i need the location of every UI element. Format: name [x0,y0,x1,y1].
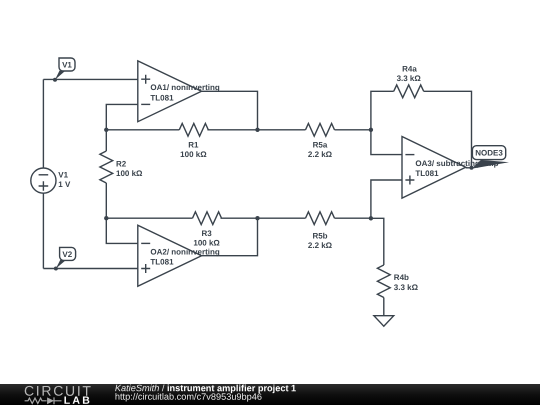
label V1 1 V [58,170,71,189]
wire: V1 flag node to OA1 noninverting input [43,78,137,80]
footer bar [0,384,540,405]
wire: OA1 output down to junction B [202,91,258,130]
resistor R3 [193,212,222,225]
svg-text:3.3 kΩ: 3.3 kΩ [397,74,422,83]
voltage source V1 [31,168,56,193]
wire: node C to R3 left lead [106,217,192,219]
svg-text:V1: V1 [58,170,68,179]
wire: V1 source bottom to V2 node and corner [42,193,44,268]
svg-text:R2: R2 [116,160,127,169]
label R4b 3.3 kΩ [394,273,419,292]
resistor R1 [179,123,208,136]
label R1 100 kΩ [180,141,207,160]
wire: left column top (node to V1 source) [42,79,44,168]
svg-text:R4a: R4a [402,64,417,73]
svg-text:2.2 kΩ: 2.2 kΩ [308,150,333,159]
svg-text:100 kΩ: 100 kΩ [180,150,207,159]
net flag V2 [54,247,76,270]
ground [374,316,394,327]
net flag V1 [53,58,75,82]
svg-text:2.2 kΩ: 2.2 kΩ [308,241,333,250]
svg-text:R1: R1 [188,141,199,150]
resistor R2 [100,130,113,218]
wire: junction E down to OA3 inverting input [371,130,402,155]
logo schematic glyph (resistor + diode) [25,397,62,404]
svg-text:R3: R3 [201,229,212,238]
resistor R5b [306,212,335,225]
label R5a 2.2 kΩ [308,141,333,160]
label OA1/ noninverting TL081 [150,83,219,102]
op-amp OA2 [138,225,202,286]
wire: junction E up to R4a left lead [371,91,394,130]
wire: node C down to OA2 inverting input [106,218,138,243]
wire: OA1 inverting input feedback to node A [106,104,138,129]
footer credit text [115,383,296,402]
wire: junction B to R5a left lead [258,129,306,131]
svg-text:V2: V2 [62,250,72,259]
label OA2/ noninverting TL081 [150,247,219,266]
wire: R4b bottom lead to ground [383,298,385,316]
label R5b 2.2 kΩ [308,231,333,250]
label R3 100 kΩ [193,229,220,248]
junction node E (R5a/R4a/OA3 inverting) [369,128,373,132]
svg-text:100 kΩ: 100 kΩ [193,239,220,248]
wire: R3 right lead to junction D [221,217,258,219]
svg-text:R4b: R4b [394,273,409,282]
wire: node A to R1 left lead [106,129,179,131]
wire: R5a right lead to junction E [335,129,371,131]
label R2 100 kΩ [116,160,143,179]
wire: R1 right lead to junction B [207,129,257,131]
svg-text:LAB: LAB [64,395,92,405]
logo CIRCUIT LAB [24,383,93,405]
resistor R4a [394,85,424,98]
wire: OA2 output up to junction D [202,218,258,256]
junction NODE3 point [470,166,474,170]
junction node A (R1/R2/OA1 feedback) [104,128,108,132]
svg-text:3.3 kΩ: 3.3 kΩ [394,283,419,292]
net flag NODE3 [472,146,510,169]
label R4a 3.3 kΩ [397,64,422,83]
svg-text:TL081: TL081 [415,169,439,178]
label OA3/ subtracting amp TL081 [415,159,498,178]
svg-text:R5a: R5a [313,141,328,150]
svg-text:TL081: TL081 [150,258,174,267]
wire: R4a right lead down to NODE3 [424,91,472,168]
wire: V2 node to OA2 noninverting input [43,268,137,270]
junction node C (R2 bottom/R3/OA2 feedback) [104,216,108,220]
wire: R5b right lead to junction F [335,217,371,219]
wire: junction F to R4b top lead [371,218,384,265]
wire: junction F up to OA3 noninverting input [371,180,402,218]
wire: junction D to R5b left lead [258,217,306,219]
junction node B (OA1 output/R1/R5a) [255,128,259,132]
junction node D (OA2 output/R3/R5b) [255,216,259,220]
op-amp OA3 [402,137,466,199]
svg-text:TL081: TL081 [150,93,174,102]
svg-text:1 V: 1 V [58,180,71,189]
svg-text:V1: V1 [62,61,72,70]
svg-text:http://circuitlab.com/c7v8953u: http://circuitlab.com/c7v8953u9bp46 [115,392,262,402]
svg-text:100 kΩ: 100 kΩ [116,169,143,178]
resistor R5a [306,123,335,136]
resistor R4b [377,265,390,298]
svg-text:NODE3: NODE3 [475,149,503,158]
junction node F (R5b/R4b/OA3 noninverting) [369,216,373,220]
svg-text:R5b: R5b [312,231,327,240]
op-amp OA1 [138,61,202,122]
wire: OA3 output to NODE3 [466,167,472,169]
